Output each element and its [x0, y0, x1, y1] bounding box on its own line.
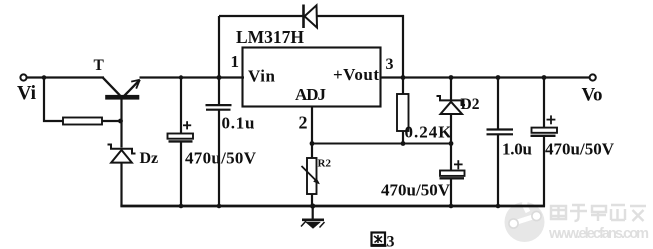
- capacitor 0.1u: [206, 16, 232, 206]
- wire Dz to rail: [120, 163, 122, 207]
- svg-text:3: 3: [386, 56, 394, 73]
- capacitor 470u/50V final electrolytic: [531, 78, 558, 207]
- svg-text:Vo: Vo: [582, 85, 603, 106]
- resistor 0.24K: [397, 78, 409, 145]
- svg-text:+Vout: +Vout: [333, 65, 379, 84]
- node 1.0u top junction: [496, 75, 501, 80]
- node cap1 bottom: [179, 204, 184, 209]
- wire D2 to cap: [450, 114, 452, 171]
- watermark logo circle: [505, 196, 545, 242]
- node ADJ junction: [310, 141, 315, 146]
- svg-text:0.1u: 0.1u: [222, 114, 255, 133]
- zener diode Dz: [108, 145, 136, 163]
- svg-text:Vin: Vin: [248, 67, 276, 86]
- svg-text:R2: R2: [318, 158, 332, 170]
- node 0.24K bottom junction: [401, 141, 406, 146]
- wire input to transistor: [27, 76, 104, 78]
- node collector junction: [118, 119, 123, 124]
- capacitor 470u/50V output electrolytic: [440, 160, 465, 206]
- op-amp/regulator U1 LM317H box: [243, 48, 381, 107]
- svg-text:1.0u: 1.0u: [502, 140, 532, 159]
- svg-text:Vi: Vi: [17, 82, 36, 104]
- node 470u right top junction: [542, 75, 547, 80]
- node 1.0u bottom rail junction: [496, 204, 501, 209]
- svg-text:LM317H: LM317H: [236, 27, 304, 47]
- svg-text:470u/50V: 470u/50V: [185, 149, 257, 168]
- wire ADJ horizontal: [312, 143, 451, 145]
- svg-text:T: T: [94, 57, 105, 74]
- input terminal Vi: [20, 74, 26, 80]
- node cap1 top: [179, 75, 183, 79]
- protection diode D1 top: [304, 5, 318, 29]
- svg-text:Dz: Dz: [140, 150, 159, 167]
- svg-text:0.24K: 0.24K: [405, 123, 453, 142]
- node R2 bottom rail junction: [310, 203, 315, 208]
- svg-text:2: 2: [299, 113, 308, 133]
- rheostat R2: [302, 158, 320, 207]
- zener diode D2: [437, 96, 466, 114]
- svg-text:ADJ: ADJ: [295, 85, 327, 104]
- svg-text:470u/50V: 470u/50V: [545, 140, 615, 159]
- node 0.1u bottom: [217, 204, 222, 209]
- svg-text:www.elecfans.com: www.elecfans.com: [548, 226, 649, 242]
- node cap2 bottom rail junction: [449, 204, 454, 209]
- svg-text:3: 3: [387, 234, 395, 249]
- ground rail: [120, 205, 545, 208]
- wire top loop right: [317, 16, 404, 78]
- resistor R1 (base resistor, unlabeled): [63, 118, 102, 125]
- node D2 top junction: [449, 75, 454, 80]
- ground: [301, 206, 325, 229]
- output terminal Vo: [590, 74, 596, 80]
- svg-text:470u/50V: 470u/50V: [381, 181, 451, 200]
- node pin3 junction: [401, 75, 406, 80]
- watermark chinese text: [551, 205, 646, 221]
- svg-text:1: 1: [231, 52, 240, 71]
- wire pin2 ADJ down: [311, 107, 313, 159]
- wire top loop: [219, 15, 303, 17]
- node ADJ-D2 junction: [449, 141, 454, 146]
- wire D2 column top: [450, 78, 452, 101]
- capacitor 1.0u: [487, 78, 514, 207]
- node 0.1u top junction: [217, 75, 222, 80]
- wire resistor to collector node: [102, 120, 122, 122]
- capacitor 470u/50V input electrolytic: [168, 78, 194, 207]
- svg-text:D2: D2: [461, 96, 480, 113]
- wire output main: [381, 76, 591, 78]
- node input junction: [42, 75, 47, 80]
- caption 图3: [371, 233, 387, 246]
- wire emitter to IC: [140, 76, 245, 78]
- wire down from input node: [44, 78, 63, 122]
- transistor T: [103, 78, 140, 148]
